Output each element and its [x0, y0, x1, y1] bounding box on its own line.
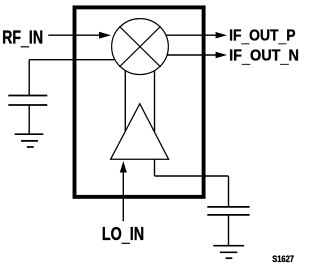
wire IF_OUT_P output	[166, 32, 227, 38]
wire mixer-amp right	[154, 71, 156, 132]
svg-text:RF_IN: RF_IN	[2, 27, 43, 49]
wire RF bypass tap	[29, 60, 115, 96]
wire LO_IN input	[120, 161, 127, 221]
wire amp output to C2	[155, 159, 229, 207]
wire IF_OUT_N output	[167, 52, 227, 58]
svg-text:IF_OUT_N: IF_OUT_N	[229, 48, 299, 67]
LO amplifier A1	[111, 104, 169, 160]
capacitor C2	[207, 207, 249, 246]
device box U1	[75, 7, 204, 196]
capacitor C1	[8, 96, 47, 135]
ground GND2	[213, 246, 244, 259]
svg-text:S1627: S1627	[272, 254, 294, 264]
svg-text:LO_IN: LO_IN	[102, 224, 144, 245]
ground GND1	[15, 134, 44, 147]
svg-text:IF_OUT_P: IF_OUT_P	[229, 28, 296, 46]
wire RF_IN input	[48, 32, 111, 39]
mixer M1	[112, 19, 169, 75]
wire mixer-amp left	[124, 70, 126, 131]
